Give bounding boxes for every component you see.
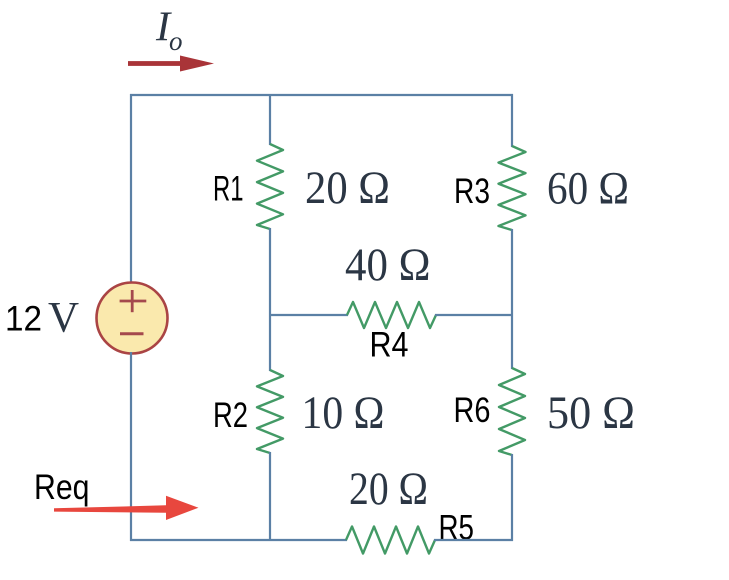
wire right upper xyxy=(511,94,513,147)
svg-text:o: o xyxy=(169,26,183,56)
wire left upper xyxy=(130,94,132,284)
resistor R4 xyxy=(347,302,436,328)
svg-text:40 Ω: 40 Ω xyxy=(345,240,431,291)
resistor R3 xyxy=(499,146,526,230)
voltage source V1 12V xyxy=(97,283,168,354)
arrow Req xyxy=(54,496,199,520)
wire middle branch lower xyxy=(269,452,271,541)
wire middle horizontal left xyxy=(269,314,348,316)
svg-text:R3: R3 xyxy=(454,172,490,211)
wire left lower xyxy=(130,352,132,541)
wire right between R3 and R6 xyxy=(511,229,513,369)
label 12 V xyxy=(5,295,79,342)
svg-text:V: V xyxy=(48,295,79,342)
resistor R1 xyxy=(257,144,283,229)
resistor R5 xyxy=(346,527,435,554)
wire right lower xyxy=(511,454,513,541)
svg-text:50 Ω: 50 Ω xyxy=(547,388,635,439)
svg-text:12: 12 xyxy=(5,300,42,339)
svg-text:10 Ω: 10 Ω xyxy=(302,388,385,439)
wire middle branch upper xyxy=(269,95,271,145)
svg-text:R1: R1 xyxy=(213,169,244,208)
svg-text:R4: R4 xyxy=(370,326,409,365)
svg-text:Req: Req xyxy=(34,468,90,507)
svg-text:60 Ω: 60 Ω xyxy=(547,164,629,215)
svg-text:20 Ω: 20 Ω xyxy=(349,464,428,515)
current label Io xyxy=(155,4,183,57)
wire middle branch between R1 and R4 node xyxy=(269,228,271,371)
svg-text:R6: R6 xyxy=(454,391,491,430)
resistor R2 xyxy=(257,370,283,453)
wire bottom right xyxy=(434,539,513,541)
svg-text:R2: R2 xyxy=(213,396,248,435)
resistor R6 xyxy=(499,368,525,455)
wire top xyxy=(130,94,513,96)
wire bottom left xyxy=(130,539,347,541)
wire middle horizontal right xyxy=(435,314,513,316)
svg-text:R5: R5 xyxy=(439,509,475,548)
current arrow Io xyxy=(128,56,214,72)
svg-text:20 Ω: 20 Ω xyxy=(305,163,390,214)
